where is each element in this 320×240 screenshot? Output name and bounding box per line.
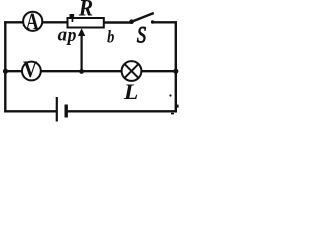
svg-text:p: p — [66, 24, 77, 45]
svg-text:L: L — [123, 78, 138, 103]
svg-text:V: V — [23, 57, 38, 83]
svg-text:R: R — [78, 0, 93, 21]
svg-text:a: a — [58, 25, 68, 46]
svg-text:A: A — [26, 9, 39, 35]
svg-text:S: S — [137, 21, 147, 48]
svg-text:b: b — [107, 26, 114, 47]
